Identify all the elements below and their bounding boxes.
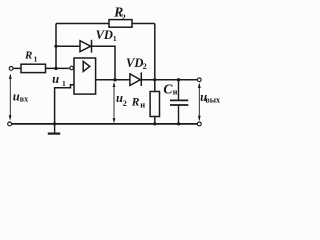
wire: top feedback to R2 xyxy=(56,23,109,25)
resistor Rn (load) xyxy=(150,92,159,117)
op-amp inverting input circle xyxy=(70,66,74,70)
wire: Rn to bottom rail xyxy=(154,117,156,124)
node: Cn bottom junction xyxy=(177,122,180,125)
output terminal top-right xyxy=(197,78,201,82)
resistor R1 xyxy=(21,64,46,72)
wire: VD1 branch left segment xyxy=(56,45,80,47)
node: capacitor top junction xyxy=(177,78,180,81)
svg-text:н: н xyxy=(173,87,178,96)
node: VD1 tap junction xyxy=(54,45,57,48)
svg-text:н: н xyxy=(140,100,145,110)
node: Rn bottom junction xyxy=(153,122,156,125)
svg-text:R: R xyxy=(24,50,32,62)
svg-text:2: 2 xyxy=(143,62,147,71)
svg-text:VD: VD xyxy=(96,28,113,42)
node: feedback/load junction xyxy=(153,78,156,81)
op-amp U1 box xyxy=(74,58,96,94)
input terminal top-left xyxy=(9,67,13,71)
voltage arrow u2 xyxy=(113,82,116,123)
op-amp amplifier triangle xyxy=(83,61,90,71)
wire: op-amp output xyxy=(96,79,130,81)
diode VD2 xyxy=(130,72,141,86)
svg-text:2: 2 xyxy=(122,12,126,22)
node: op-amp output junction xyxy=(113,78,116,81)
ground symbol xyxy=(48,124,60,134)
wire: R2 to right feedback corner xyxy=(132,23,155,25)
voltage arrow u_vx xyxy=(9,74,12,121)
wire: right feedback vertical down to output xyxy=(154,24,156,80)
svg-text:u: u xyxy=(13,89,20,103)
wire: R1 to op-amp input xyxy=(46,67,70,69)
output terminal bottom-right xyxy=(197,122,201,126)
wire: VD1 to output junction xyxy=(92,46,116,80)
wire: junction down to Rn xyxy=(154,80,156,92)
wire: VD2 to output terminal xyxy=(141,79,197,81)
svg-text:вх: вх xyxy=(20,94,28,103)
svg-text:1: 1 xyxy=(62,79,66,88)
input terminal bottom-left xyxy=(8,122,12,126)
svg-text:1: 1 xyxy=(113,34,117,43)
diode VD1 xyxy=(80,40,92,53)
svg-text:VD: VD xyxy=(126,56,143,70)
svg-text:R: R xyxy=(131,96,140,108)
svg-text:2: 2 xyxy=(123,98,127,108)
wire: left feedback vertical xyxy=(55,24,57,69)
voltage arrow u_out xyxy=(198,83,201,122)
svg-text:вых: вых xyxy=(205,95,220,104)
svg-text:u: u xyxy=(52,72,59,86)
resistor R2 xyxy=(109,20,132,28)
capacitor Cn xyxy=(170,80,188,124)
node: ground junction xyxy=(53,122,56,125)
node: inverting input junction xyxy=(54,67,57,70)
svg-text:1: 1 xyxy=(34,55,38,64)
bottom rail wire xyxy=(12,123,197,125)
wire: input terminal to R1 xyxy=(13,67,21,69)
wire: op-amp non-inverting input to ground rail xyxy=(55,85,74,124)
